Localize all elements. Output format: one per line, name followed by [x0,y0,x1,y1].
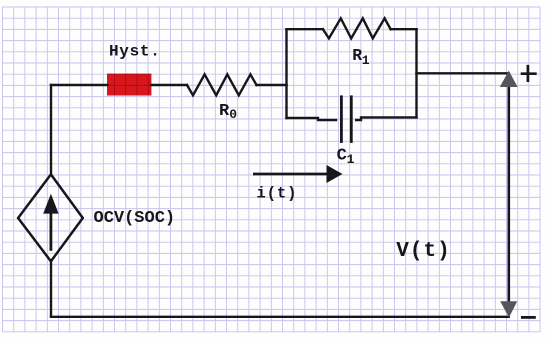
RC box bottom edge right segment [356,117,416,120]
current arrow i(t) head [327,165,343,183]
capacitor C1 left plate [340,97,343,142]
wire RC box to + terminal [417,72,509,74]
V(t) sense arrowhead down (- side, gray) [500,301,517,317]
wire R0 to RC box [257,84,287,86]
svg-text:OCV(SOC): OCV(SOC) [94,209,176,228]
wire source left vertical top [50,85,52,175]
wire top-left horizontal (source top to Hyst.) [51,84,108,86]
RC box top edge segments [287,28,323,30]
V(t) sense arrow shaft (right side) [507,84,510,303]
svg-text:V(t): V(t) [396,240,450,263]
svg-text:0: 0 [229,107,237,122]
source OCV diamond [18,174,83,261]
wire bottom horizontal [51,316,509,318]
wire Hyst. to R0 [151,84,187,86]
wire source left vertical bottom [50,261,52,317]
RC box bottom edge left segment [287,118,337,120]
V(t) sense arrowhead up (+ side, gray) [500,71,518,87]
svg-text:R: R [352,46,362,65]
hysteresis block (red rectangle, under grid) [107,74,151,96]
svg-text:i(t): i(t) [257,184,298,202]
capacitor C1 right plate [350,97,353,142]
resistor R0 [187,74,257,95]
plus terminal symbol [521,65,537,82]
source arrow shaft [50,209,53,251]
svg-text:Hyst.: Hyst. [109,42,161,60]
minus terminal symbol [521,316,536,319]
RC box left edge [285,29,287,118]
svg-text:C: C [337,147,347,166]
resistor R1 [323,18,391,38]
source arrowhead [43,194,58,214]
current arrow i(t) shaft [253,173,327,176]
svg-text:1: 1 [362,53,370,68]
svg-text:1: 1 [347,152,355,167]
RC box right edge [415,29,417,117]
